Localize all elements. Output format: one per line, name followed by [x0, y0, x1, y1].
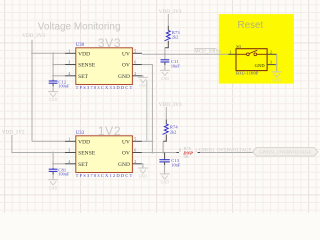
value label GND inside S1	[255, 63, 265, 68]
ground GND under C81	[48, 180, 58, 191]
wire VDD_3V3 to U30 pin 1	[31, 52, 65, 54]
svg-text:SENSE: SENSE	[78, 151, 96, 157]
net label MCU_XRSn (active low)	[194, 49, 221, 55]
designator U30	[76, 43, 85, 48]
wire decoupling tap vertical (1V2)	[52, 152, 54, 168]
svg-text:1: 1	[229, 50, 231, 54]
svg-text:VDD: VDD	[78, 139, 90, 145]
svg-text:GND: GND	[49, 98, 58, 102]
svg-text:2: 2	[134, 71, 136, 76]
svg-text:GND: GND	[118, 162, 130, 168]
wire VDD_3V3 to U33 pin 1	[32, 140, 65, 142]
pin 5 (UV) of U30	[122, 48, 142, 57]
wire VDD_3V3 down to R73	[167, 14, 169, 26]
value label 0R	[184, 154, 189, 159]
net label VDD_3V3 (middle)	[159, 103, 182, 108]
value label TPS3703CX12DDCT of U33	[76, 173, 134, 178]
wire VDD_3V3 vertical down to U33 VDD	[31, 40, 33, 142]
wire to U33 SET	[52, 163, 65, 165]
wire decoupling tap vertical (3V3)	[52, 52, 54, 79]
wire U33 UV tie-in	[142, 140, 153, 142]
ground GND under U33	[138, 168, 148, 179]
net label VDD_3V3 (top middle)	[159, 10, 182, 15]
svg-text:3V3: 3V3	[98, 36, 121, 50]
resistor R76 (DNP 0R) pins	[176, 152, 200, 154]
pin 2 (GND) of U33	[118, 159, 142, 168]
port GPIO51_OVERVOLTAGE	[253, 148, 318, 156]
wire VDD_3V3 down to R74	[165, 107, 167, 120]
net label VDD_3V3 (left)	[22, 34, 45, 39]
svg-text:5: 5	[134, 136, 136, 141]
resistor R74	[163, 120, 179, 142]
svg-text:VDD_1V2: VDD_1V2	[2, 131, 25, 136]
svg-text:B3U-1100P: B3U-1100P	[236, 71, 259, 76]
capacitor C12	[49, 79, 70, 91]
value label TPS3703CX33DDCT of U30	[76, 85, 134, 90]
pin 1 of S1	[228, 50, 236, 54]
pin 4 (SET) of U30	[65, 71, 89, 80]
svg-text:GND: GND	[273, 79, 282, 83]
ground GND under C11	[160, 70, 170, 81]
svg-text:OV: OV	[122, 151, 130, 157]
svg-text:GND: GND	[139, 84, 148, 88]
svg-text:3: 3	[270, 61, 272, 65]
pin 4 (SET) of U33	[65, 159, 89, 168]
designator U33	[76, 131, 85, 136]
section title Voltage Monitoring	[38, 21, 121, 32]
svg-text:GND: GND	[161, 77, 170, 81]
svg-text:2k2: 2k2	[170, 129, 176, 134]
pin 1 (VDD) of U30	[65, 48, 90, 57]
designator S1	[236, 44, 241, 49]
svg-text:5: 5	[134, 48, 136, 53]
wire to U30 SENSE	[52, 64, 65, 66]
pin 1 (VDD) of U33	[65, 136, 90, 145]
ground GND under S1	[272, 72, 282, 83]
pin 2 of S1	[267, 50, 277, 54]
svg-text:100nF: 100nF	[58, 83, 70, 88]
wire U33 GND pin to ground	[142, 164, 143, 168]
svg-text:VDD: VDD	[78, 51, 90, 57]
svg-text:UV: UV	[122, 51, 130, 57]
wire R74 to overvoltage net and C13	[162, 141, 164, 153]
svg-text:GPIO51_OVERVOLTAGE: GPIO51_OVERVOLTAGE	[199, 149, 252, 154]
wire R73 to MCU_XRSn net and C11	[164, 48, 166, 60]
svg-text:VDD_3V3: VDD_3V3	[159, 103, 182, 108]
svg-text:MCU_XRSn: MCU_XRSn	[194, 49, 221, 54]
svg-text:1V2: 1V2	[98, 124, 121, 138]
svg-text:2: 2	[270, 50, 272, 54]
pin 6 (OV) of U33	[122, 148, 142, 157]
svg-text:1: 1	[68, 48, 70, 53]
svg-text:4: 4	[68, 71, 70, 76]
switch S1 contacts	[236, 50, 267, 55]
ground GND under C13	[160, 174, 170, 185]
net label GPIO51_OVERVOLTAGE	[199, 149, 252, 154]
wire U30 OV down to overvoltage net	[142, 65, 154, 154]
svg-text:TPS3703CX12DDCT: TPS3703CX12DDCT	[76, 173, 134, 178]
ground GND under C12	[48, 92, 58, 103]
svg-text:SET: SET	[78, 162, 89, 168]
svg-text:GND: GND	[255, 63, 265, 68]
value label B3U-1100P	[236, 71, 259, 76]
pin 3 (SENSE) of U30	[65, 60, 96, 69]
op-amp U30 U30 supervisor IC body	[76, 48, 133, 85]
pin 3 (SENSE) of U33	[65, 148, 96, 157]
svg-text:100nF: 100nF	[58, 172, 70, 177]
svg-text:3: 3	[68, 60, 70, 65]
section title 3V3	[98, 36, 121, 50]
resistor R73	[165, 26, 181, 48]
svg-text:GND: GND	[49, 186, 58, 190]
net label VDD_1V2	[2, 131, 25, 136]
pin 1 of R76	[179, 148, 181, 152]
svg-text:6: 6	[134, 60, 136, 65]
svg-text:6: 6	[134, 148, 136, 153]
wire overvoltage net horizontal to R76	[142, 152, 179, 154]
capacitor C11	[161, 59, 181, 70]
ground GND under U30	[138, 77, 148, 88]
pin 2 of R76	[195, 148, 197, 152]
wire VDD_1V2 down and to U33 SENSE	[12, 135, 65, 153]
svg-text:GND: GND	[139, 175, 148, 179]
designator R76	[184, 146, 192, 151]
pin 6 (OV) of U30	[122, 60, 142, 69]
switch S1 body	[236, 49, 267, 71]
svg-text:3: 3	[68, 148, 70, 153]
svg-text:UV: UV	[122, 139, 130, 145]
capacitor C81	[49, 168, 70, 180]
node Reset-section highlight rectangle	[219, 14, 294, 84]
pin 2 (GND) of U30	[118, 71, 142, 80]
section title 1V2	[98, 124, 121, 138]
svg-text:2: 2	[134, 159, 136, 164]
svg-text:GND: GND	[161, 181, 170, 185]
pin 3 of S1	[267, 61, 277, 65]
svg-text:GPIO51_OVERVOLTAGE: GPIO51_OVERVOLTAGE	[259, 150, 311, 155]
svg-text:VDD_3V3: VDD_3V3	[159, 10, 182, 15]
svg-text:GND: GND	[118, 74, 130, 80]
wire overvoltage net to port	[200, 152, 253, 154]
svg-text:SENSE: SENSE	[78, 63, 96, 69]
wire S1 pins 2,3 to ground	[276, 54, 278, 72]
svg-text:TPS3703CX33DDCT: TPS3703CX33DDCT	[76, 85, 134, 90]
wire from U30 ground area down to U33 UV row	[146, 80, 148, 142]
svg-text:SET: SET	[78, 74, 89, 80]
svg-text:U30: U30	[76, 43, 85, 48]
svg-text:S1: S1	[236, 44, 241, 49]
op-amp U33 U33 supervisor IC body	[76, 136, 133, 173]
wire U30 GND pin to ground	[142, 76, 143, 78]
svg-text:U33: U33	[76, 131, 85, 136]
svg-text:VDD_3V3: VDD_3V3	[22, 34, 45, 39]
wire to U30 SET	[52, 75, 65, 77]
svg-text:Reset: Reset	[238, 20, 264, 31]
capacitor C13	[159, 153, 180, 174]
svg-text:1: 1	[179, 148, 181, 152]
wire MCU_XRSn horizontal	[142, 53, 228, 55]
svg-text:Voltage Monitoring: Voltage Monitoring	[38, 21, 121, 32]
svg-text:10nF: 10nF	[171, 64, 180, 69]
svg-text:4: 4	[68, 159, 70, 164]
svg-text:2: 2	[195, 148, 197, 152]
value label DNP (do not populate)	[182, 150, 193, 155]
svg-text:0R: 0R	[184, 154, 189, 159]
svg-text:2k2: 2k2	[172, 35, 178, 40]
svg-text:OV: OV	[122, 63, 130, 69]
svg-text:1: 1	[68, 136, 70, 141]
svg-text:10nF: 10nF	[171, 163, 180, 168]
pin 5 (UV) of U33	[122, 136, 142, 145]
section title Reset	[238, 20, 264, 31]
